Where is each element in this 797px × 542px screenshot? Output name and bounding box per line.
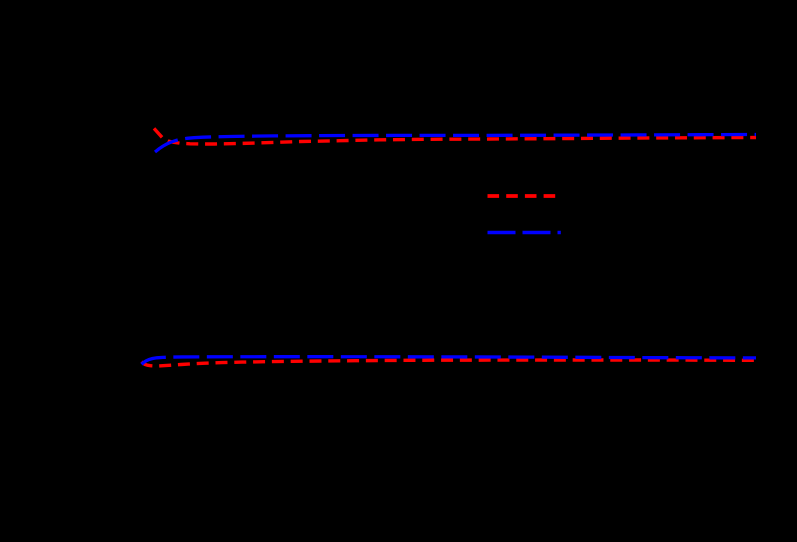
top panel red dashed curve bbox=[154, 128, 756, 144]
bottom panel red dashed curve bbox=[142, 360, 757, 366]
legend red dashed line sample bbox=[488, 194, 556, 198]
top panel blue dashed curve bbox=[155, 135, 756, 153]
bottom panel blue dashed curve bbox=[142, 357, 757, 365]
legend blue dashed line sample bbox=[488, 231, 561, 235]
